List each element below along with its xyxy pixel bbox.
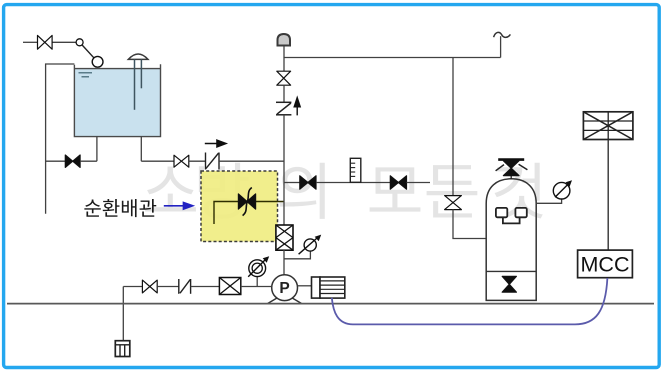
MCC box: [578, 250, 633, 278]
wire: [191, 286, 220, 288]
ground line: [7, 303, 654, 305]
pressure switches: [496, 208, 507, 217]
flow up arrow: [294, 98, 300, 116]
suction wire: [123, 286, 142, 288]
riser check valve: [276, 101, 291, 103]
pressure chamber vessel: [486, 179, 536, 301]
tank left outlet stub: [96, 137, 98, 162]
riser wire: [283, 58, 285, 72]
riser wire: [283, 115, 285, 226]
wire to pump: [241, 286, 272, 288]
foot strainer: [115, 341, 130, 357]
suction drop elbow: [122, 287, 124, 341]
relief valve (filled): [238, 194, 255, 209]
flow meter: [350, 158, 361, 182]
water tank fill: [75, 69, 161, 137]
drain branch wire: [452, 58, 454, 196]
flow direction arrow: [205, 140, 226, 147]
to-system pipe with break: [500, 36, 502, 57]
tank overflow pipe L: [46, 64, 75, 214]
air release cap: [283, 45, 285, 58]
vessel pressure gauge: [553, 182, 570, 199]
top header pipe: [284, 57, 501, 59]
wire drain: [46, 160, 66, 162]
test line wire: [284, 182, 300, 184]
circulation highlight yellow box: [201, 171, 278, 242]
water level marks: [79, 72, 93, 74]
wire: [316, 182, 390, 184]
discharge pressure gauge: [304, 239, 316, 251]
suction gate valve: [142, 280, 157, 293]
riser flex joint crossed box: [276, 225, 293, 250]
motor body: [320, 277, 345, 298]
watermark text 소방의 모든것: [145, 163, 543, 219]
pump P: [272, 275, 298, 301]
vessel bottom valve (filled): [502, 276, 516, 292]
motor coupling: [312, 277, 321, 298]
water tank walls: [74, 64, 160, 136]
feed gate valve: [174, 155, 189, 167]
wire supply pipe to float valve: [23, 41, 38, 43]
riser gate valve: [277, 71, 291, 85]
relief valve curve mark: [243, 188, 252, 216]
wire to pressure tank: [453, 209, 486, 238]
water surface line: [74, 68, 160, 70]
wire: [407, 182, 431, 184]
suction flex joint crossed box: [219, 278, 240, 295]
wire panel to MCC: [607, 140, 609, 251]
float pivot: [76, 39, 83, 46]
power cable MCC to motor (blue): [332, 278, 608, 324]
float arm: [82, 45, 94, 58]
drain valve (filled): [65, 155, 80, 167]
test valve 1 (filled): [300, 176, 316, 189]
pump-motor link: [297, 285, 311, 287]
float ball: [92, 56, 103, 67]
test valve 2 (filled): [390, 176, 406, 189]
tank right outlet stub: [140, 137, 142, 162]
vessel divider: [486, 270, 536, 272]
wire feed: [141, 160, 174, 162]
discharge gauge tap: [284, 251, 310, 259]
check valve on feed: [205, 153, 207, 170]
union / check: [178, 279, 180, 294]
label pointer arrow (blue): [164, 203, 193, 209]
compound gauge stem: [256, 277, 258, 287]
vessel gauge stem: [536, 199, 561, 203]
wire: [189, 160, 206, 162]
safety valve on vessel top: [510, 176, 512, 180]
riser wire to pump: [283, 250, 285, 275]
compound gauge: [249, 260, 266, 277]
valve on float supply: [38, 35, 53, 49]
wire: [80, 160, 97, 162]
label 순환배관 (circulation piping): [84, 199, 156, 217]
circulation relief pipe L: [214, 202, 284, 225]
riser wire: [283, 85, 285, 102]
wire: [157, 286, 179, 288]
wire feed to riser: [219, 160, 284, 162]
svg-text:MCC: MCC: [581, 253, 630, 277]
pump feet: [268, 298, 278, 304]
supply panel crossed box: [583, 112, 633, 140]
svg-text:P: P: [279, 280, 289, 297]
drain branch gate valve: [445, 196, 462, 210]
tank vent funnel: [128, 54, 148, 59]
